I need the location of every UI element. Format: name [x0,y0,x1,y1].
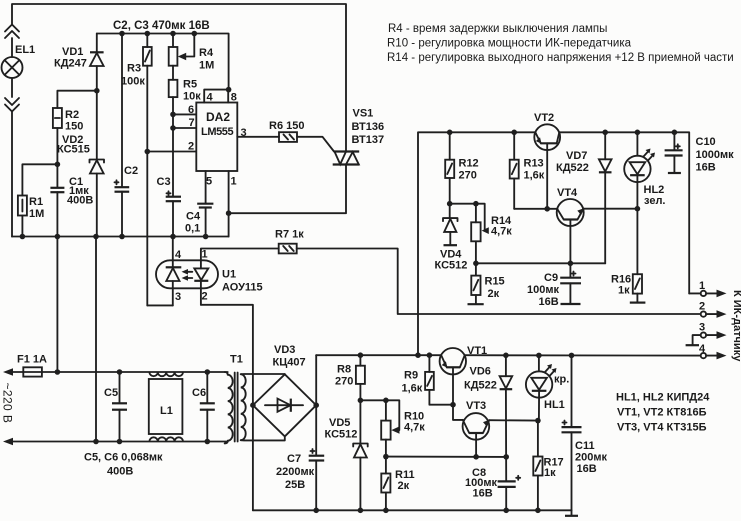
transistor VT3 KT315 [463,400,490,457]
svg-text:150: 150 [65,121,83,133]
svg-text:R13: R13 [524,158,544,170]
svg-text:U1: U1 [222,269,236,281]
svg-text:EL1: EL1 [15,44,35,56]
svg-text:КС512: КС512 [435,260,468,272]
node bus R4 wiper [192,31,198,37]
svg-text:R1: R1 [29,196,43,208]
svg-text:VD7: VD7 [566,150,587,162]
svg-text:1: 1 [231,176,237,188]
wire VT3 emitter to HL1 node [489,419,538,421]
optocoupler U1 AOU115 [156,237,263,306]
diode VD1 KD247 [54,34,104,91]
transformer T1 primary [225,354,243,444]
node rail HL1 [536,353,542,359]
svg-text:10к: 10к [183,91,201,103]
transistor VT4 KT315 [557,187,584,263]
svg-text:3: 3 [699,322,705,334]
svg-text:100к: 100к [121,76,145,88]
capacitor C9 100mk 16V [527,263,581,308]
node rail R13 [511,130,517,136]
svg-text:25В: 25В [285,479,305,491]
ground bar R16 [630,302,646,304]
node R17 bottom [535,508,541,514]
svg-text:КД247: КД247 [54,58,87,70]
label to IR sensor [731,290,741,362]
ground bar VD4 [444,244,458,246]
svg-text:L1: L1 [160,405,173,417]
capacitor C11 200mk 16V [562,355,608,510]
resistor R7 1k [275,229,304,254]
svg-text:R10 - регулировка мощности ИК: R10 - регулировка мощности ИК-передатчик… [387,38,632,50]
node VT2 base / VT4 collector [544,206,550,212]
node pin6 tap [170,112,176,118]
svg-text:VT2: VT2 [534,112,554,124]
svg-text:1М: 1М [29,208,44,220]
svg-text:~220 В: ~220 В [1,383,15,424]
svg-text:16В: 16В [577,463,597,475]
svg-text:DA2: DA2 [206,110,230,124]
node rail VD7 [602,130,608,136]
capacitor C5 [104,372,127,442]
note text header [387,23,734,64]
inductor L1 core box [149,379,183,434]
resistor R2 150 [53,108,83,164]
transformer T1 secondary [241,374,285,440]
svg-text:16В: 16В [473,488,493,500]
node R12 bottom [447,201,453,207]
node bridge left corner [250,402,256,408]
node C4 bottom [203,234,209,240]
potentiometer R10 4,7k [381,400,425,456]
svg-text:270: 270 [335,376,353,388]
svg-text:16В: 16В [539,296,559,308]
svg-text:КД522: КД522 [464,380,497,392]
svg-text:5: 5 [206,176,212,188]
wire lamp bottom down to lower node [11,112,13,237]
svg-text:3: 3 [175,291,181,303]
wire VT4 emitter to HL2 node [584,208,638,210]
label ~220V [1,383,15,424]
node R9 top [427,352,433,358]
wire R13 to VT2 base node [514,208,557,210]
svg-text:270: 270 [459,170,477,182]
wire 555 pin7 [173,127,196,129]
node pin4/8 supply [226,87,232,93]
node VD1 anode junction [94,88,100,94]
svg-text:4: 4 [207,92,214,104]
zener VD5 KS512 [325,400,368,510]
node C1 bottom [55,234,61,240]
node C3 bottom / U1 pin4 [170,234,176,240]
svg-text:VD3: VD3 [274,344,295,356]
svg-text:АОУ115: АОУ115 [222,282,263,294]
fuse F1 1A [17,354,47,377]
svg-text:1М: 1М [199,60,214,72]
svg-text:4,7к: 4,7к [404,422,425,434]
svg-text:ВТ137: ВТ137 [352,134,385,146]
potentiometer R4 1M [169,34,215,72]
wire junction to R2 [57,91,96,108]
svg-text:400В: 400В [107,466,133,478]
wire pin3 output [237,136,279,138]
node VT1 base / VT3 collector [450,402,456,408]
svg-text:VS1: VS1 [353,108,374,120]
wire VD2 line down to mains bottom wire [95,237,97,442]
node C6 top [205,369,211,375]
svg-text:C3: C3 [157,176,171,188]
svg-text:зел.: зел. [644,195,665,207]
svg-text:VT3, VT4 КТ315Б: VT3, VT4 КТ315Б [617,422,707,434]
resistor R16 1k [611,209,642,302]
svg-text:КЦ407: КЦ407 [273,357,306,369]
svg-text:R6 150: R6 150 [269,120,304,132]
svg-text:R12: R12 [459,158,479,170]
svg-text:R4 - время задержки выключения: R4 - время задержки выключения лампы [388,23,607,35]
svg-text:HL1: HL1 [544,399,565,411]
capacitor C2 [115,34,139,237]
node VD5 bottom [358,508,364,514]
zener VD2 KS515 [57,91,104,237]
wire top loop from lamp to triac [12,4,346,152]
node bridge right corner [313,402,319,408]
svg-text:C2: C2 [124,165,138,177]
svg-text:1,6к: 1,6к [524,170,545,182]
transformer T1 core [235,373,238,442]
node rail/top riser [415,352,421,358]
svg-text:R5: R5 [183,79,197,91]
wire C1 line down to mains top wire [56,237,58,373]
ground symbol at bus right end [565,510,578,516]
capacitor C7 2200mk 25V [276,405,324,510]
svg-text:200мк: 200мк [575,452,607,464]
node rail VD6 [503,353,509,359]
svg-text:1000мк: 1000мк [696,149,735,161]
svg-text:C5: C5 [104,387,118,399]
svg-text:C6: C6 [192,387,206,399]
wire VT1 base to VT3 [453,405,463,420]
node C5 bottom [117,439,123,445]
node rail C10 [672,130,678,136]
node C8 bottom [503,508,509,514]
resistor R9 1,6k [402,355,454,405]
svg-text:1: 1 [699,280,705,292]
svg-text:1,6к: 1,6к [402,383,423,395]
zener VD4 KS512 [435,204,468,272]
wire junction to R1 [22,164,57,195]
node R1 bottom [20,234,26,240]
wire lower left bus y=236.5 [12,236,229,238]
wire +supply rail y=355 [316,354,441,356]
ground bar C10 [668,172,681,174]
node bus R3 [145,31,151,37]
node R2/C1 junction [55,162,61,168]
svg-text:2к: 2к [488,288,500,300]
node C6 bottom [205,439,211,445]
mains arrow bottom [3,438,13,446]
wire U1 pin1 to R7 [201,249,279,250]
terminal 2 [699,301,727,318]
wire bottom ground bus [253,509,572,511]
diode VD6 KD522 [464,355,512,481]
svg-text:1к: 1к [544,467,556,479]
transistor VT2 KT816 [534,112,560,209]
svg-text:1к: 1к [618,285,630,297]
node bus R4 [170,31,176,37]
label parts list [616,392,710,434]
inductor L1 bottom winding [149,437,183,441]
node rail R12 [447,130,453,136]
capacitor C4 0,1 on pin5 [185,171,213,237]
svg-text:F1 1А: F1 1А [17,354,47,366]
node R10 top [383,398,389,404]
resistor R17 1k [533,421,563,511]
svg-text:2200мк: 2200мк [276,466,315,478]
label C5 C6 values [84,452,163,478]
svg-text:LM555: LM555 [201,126,234,138]
svg-text:VD6: VD6 [470,366,491,378]
resistor R11 2k [381,457,414,511]
svg-text:0,1: 0,1 [185,223,200,235]
svg-text:400В: 400В [67,195,93,207]
wire U1 pin3 hook to timing node [147,304,173,306]
svg-text:HL1, HL2 КИПД24: HL1, HL2 КИПД24 [616,392,710,404]
inductor L1 top winding [149,372,183,376]
diode VD7 KD522 [556,132,612,263]
node R8 bottom / VD5 [358,398,364,404]
node divider wire on VD6 line [503,454,509,460]
svg-text:R2: R2 [65,109,79,121]
svg-text:1: 1 [202,249,208,261]
capacitor C3 [157,176,182,237]
svg-text:КД522: КД522 [556,162,589,174]
ground bar R15 [468,303,484,305]
resistor R12 270 [445,132,478,203]
node R14 bottom / R15 [473,261,479,267]
svg-text:VT3: VT3 [466,400,486,412]
svg-text:КС512: КС512 [325,429,358,441]
wire pin1 down and to triac [229,165,346,237]
svg-text:R7 1к: R7 1к [275,229,304,241]
wire regulator divider node [386,456,506,458]
svg-text:КС515: КС515 [57,144,90,156]
node VT4 base / C9 [568,261,574,267]
potentiometer R14 4,7k [471,204,512,264]
wire +12V top rail [418,132,535,355]
label C2,C3 values [113,20,210,32]
wire mains bottom [10,441,228,443]
svg-text:R4: R4 [199,47,214,59]
svg-text:100мк: 100мк [527,284,559,296]
svg-text:C9: C9 [544,272,558,284]
svg-text:К ИК-датчику: К ИК-датчику [731,290,741,362]
svg-text:R15: R15 [485,276,505,288]
svg-text:VD1: VD1 [62,46,83,58]
svg-text:T1: T1 [230,354,243,366]
svg-text:2: 2 [202,291,208,303]
ground bar C9 [561,303,581,305]
wire 555 pin6 [173,113,196,115]
node bus C2 [119,31,125,37]
svg-text:R9: R9 [404,370,418,382]
lamp EL1 [2,25,36,112]
node rail C11 [569,353,575,359]
svg-text:C11: C11 [575,440,595,452]
capacitor C1 1mk 400V [50,164,93,236]
wire rail VT2 collector to right [559,132,689,293]
wire regulator reference node [476,262,605,264]
node C7 bottom on ground bus [313,508,319,514]
resistor R1 1M [18,196,44,237]
wire U1 pin2 to bridge [201,305,253,511]
node pin7 tap [170,125,176,131]
svg-text:2к: 2к [398,480,410,492]
resistor R8 270 [335,355,365,400]
svg-text:ВТ136: ВТ136 [352,121,385,133]
svg-text:16В: 16В [696,162,716,174]
svg-text:кр.: кр. [554,374,569,386]
wire 555 pin2 [147,151,196,153]
terminal 1 to IR sensor [689,280,726,297]
node VT3 base on divider wire [473,454,479,460]
node VD2 bottom [93,234,99,240]
bridge rectifier VD3 KTs407 [253,344,316,436]
transistor VT1 KT816 [440,345,488,405]
wire mains top [10,371,228,373]
svg-text:7: 7 [189,117,195,129]
resistor R6 150 [269,120,304,142]
svg-text:4,7к: 4,7к [491,226,512,238]
LED HL2 green [624,132,665,208]
wire top supply bus y=33.5 [97,34,229,90]
wire R6 to triac gate [297,137,334,152]
resistor R13 1,6k [510,132,545,209]
svg-text:C10: C10 [696,136,716,148]
wire bridge right corner up to +rail [315,355,317,405]
node R8 top [358,352,364,358]
svg-text:C2, C3 470мк 16В: C2, C3 470мк 16В [113,20,210,32]
node C2 bottom [119,234,125,240]
node C1 line on mains wire [55,369,61,375]
svg-text:VT4: VT4 [557,187,578,199]
resistor R3 100k [121,34,152,306]
svg-text:4: 4 [175,249,182,261]
node R10 bottom / R11 [383,454,389,460]
wire R7 to terminal 2 [297,249,701,315]
svg-text:2: 2 [699,301,705,313]
capacitor C8 100mk 16V [465,467,520,510]
wire R12 node to R14 [450,204,485,231]
svg-text:R14 - регулировка выходного н: R14 - регулировка выходного напряжения +… [387,52,734,64]
svg-text:VT1, VT2 КТ816Б: VT1, VT2 КТ816Б [617,407,707,419]
node pin1 / triac wire [226,210,232,216]
node C5 top [117,369,123,375]
node HL1 bottom / VT3 emitter / R17 [535,418,541,424]
svg-text:8: 8 [231,92,237,104]
node R14 top [473,201,479,207]
svg-text:VD5: VD5 [329,417,350,429]
resistor R5 10k [169,66,202,197]
node on mains bottom wire [93,439,99,445]
wire VT1 collector rail to terminal 4 [465,354,701,356]
terminal 4 [699,343,727,359]
mains arrow top [3,368,13,376]
terminal 3 with ground stub [686,322,727,346]
resistor R15 2k [471,263,504,303]
svg-text:C4: C4 [186,211,201,223]
svg-text:C5, C6 0,068мк: C5, C6 0,068мк [84,452,163,464]
svg-text:2: 2 [188,141,194,153]
svg-text:6: 6 [188,104,194,116]
node R3 line / pin2 wire [145,149,151,155]
LED HL1 red [526,355,569,420]
node R11 bottom [383,508,389,514]
node rail HL2 [635,130,641,136]
node HL2 bottom / VT4 emitter / R16 [635,206,641,212]
capacitor C6 [192,372,215,442]
wire R8 node to R10 [360,400,399,430]
IC DA2 LM555 [188,90,247,188]
svg-text:R3: R3 [127,63,141,75]
triac VS1 BT136/BT137 [333,108,384,165]
capacitor C10 1000mk 16V [665,132,735,173]
svg-text:R8: R8 [337,364,351,376]
svg-text:4: 4 [699,343,706,355]
svg-text:C7: C7 [287,453,301,465]
